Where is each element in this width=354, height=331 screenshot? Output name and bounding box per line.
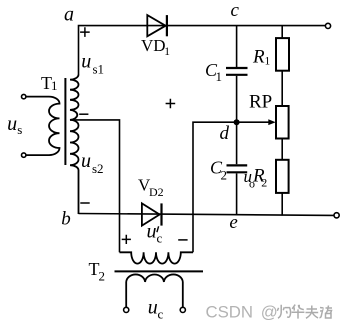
svg-text:u: u xyxy=(81,51,91,73)
svg-text:1: 1 xyxy=(265,55,271,67)
svg-text:u: u xyxy=(147,221,157,243)
svg-text:1: 1 xyxy=(216,69,223,84)
svg-text:u: u xyxy=(148,296,158,318)
svg-text:c: c xyxy=(158,306,164,321)
svg-text:1: 1 xyxy=(51,78,58,93)
svg-text:2: 2 xyxy=(221,168,228,183)
svg-text:s1: s1 xyxy=(93,62,105,77)
svg-text:D2: D2 xyxy=(149,185,164,199)
svg-text:CSDN: CSDN xyxy=(206,302,254,321)
svg-text:b: b xyxy=(61,209,70,230)
svg-text:e: e xyxy=(229,212,237,233)
svg-text:s2: s2 xyxy=(92,161,104,176)
svg-text:1: 1 xyxy=(164,46,170,58)
svg-text:u: u xyxy=(7,113,17,135)
svg-text:2: 2 xyxy=(99,268,106,283)
svg-text:c: c xyxy=(157,231,163,246)
svg-text:2: 2 xyxy=(261,175,267,189)
svg-text:d: d xyxy=(220,123,230,144)
svg-text:a: a xyxy=(64,4,74,26)
svg-text:VD: VD xyxy=(141,36,166,55)
svg-text:c: c xyxy=(231,0,240,21)
svg-text:R: R xyxy=(252,47,265,68)
svg-text:@: @ xyxy=(261,302,278,321)
svg-text:RP: RP xyxy=(249,92,272,113)
svg-text:s: s xyxy=(17,122,22,137)
svg-text:u: u xyxy=(81,150,91,172)
